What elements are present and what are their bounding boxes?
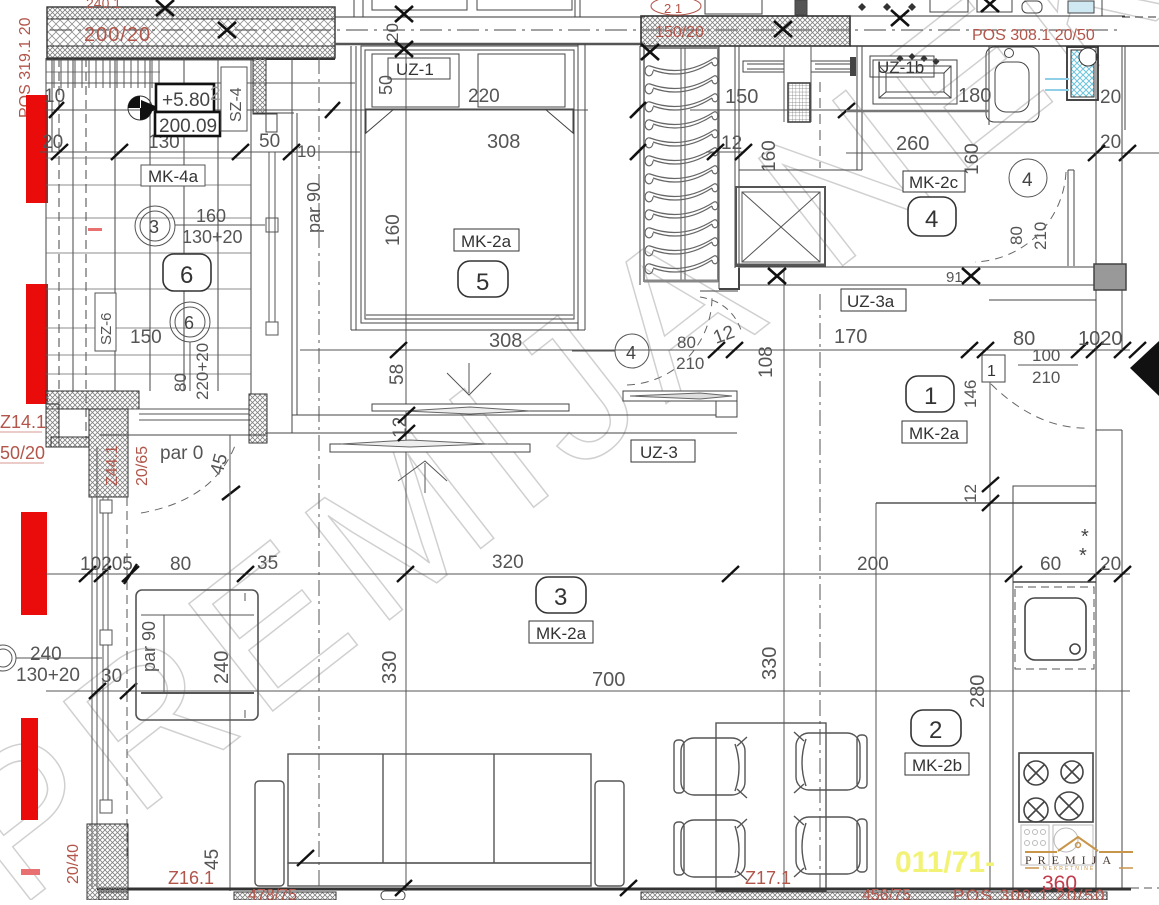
dashdot x322 — [318, 58, 320, 889]
svg-text:330: 330 — [379, 651, 401, 684]
svg-text:4: 4 — [925, 206, 938, 233]
svg-text:330: 330 — [759, 647, 781, 680]
svg-text:Z17.1: Z17.1 — [745, 868, 791, 888]
ticks y110/y152 — [49, 102, 340, 160]
toilet — [986, 47, 1039, 122]
svg-text:80: 80 — [677, 333, 696, 352]
level marker symbol — [128, 96, 160, 120]
dim line y110 right — [690, 109, 860, 111]
svg-text:260: 260 — [896, 133, 929, 155]
red bar 3 — [21, 512, 47, 615]
svg-text:160: 160 — [383, 214, 404, 246]
rounded 4 — [908, 197, 956, 236]
svg-text:45: 45 — [202, 849, 223, 870]
hall door arc (80) — [627, 297, 712, 385]
UZ-3 door panel upper right — [623, 391, 737, 417]
svg-text:150/20: 150/20 — [655, 24, 704, 41]
armchair — [136, 590, 258, 720]
svg-text:par 90: par 90 — [304, 182, 324, 233]
rounded 2 — [911, 710, 961, 746]
svg-text:220: 220 — [468, 86, 500, 107]
svg-text:210: 210 — [676, 354, 704, 373]
left circle dim — [0, 645, 102, 671]
svg-text:50: 50 — [376, 75, 396, 95]
tick y691 left — [120, 683, 137, 699]
svg-text:200.09: 200.09 — [159, 116, 217, 137]
svg-text:Z16.1: Z16.1 — [168, 868, 214, 888]
shelf left — [743, 61, 784, 72]
vertical x784 — [783, 268, 785, 889]
svg-text:1020: 1020 — [1078, 328, 1123, 350]
tick y110 right — [838, 103, 855, 118]
wall right of stairs — [719, 46, 739, 289]
UZ-3a wall lower line — [700, 290, 738, 292]
chair BR — [794, 816, 867, 877]
svg-text:1: 1 — [987, 363, 996, 380]
svg-text:20: 20 — [1100, 132, 1121, 153]
kitchen peninsula line — [876, 502, 1096, 504]
door jamb 1 — [982, 355, 1005, 382]
dining table — [716, 723, 826, 891]
dashed x127 — [126, 497, 128, 860]
bowtie marks on walls — [156, 0, 999, 284]
kitchen pass lines — [128, 409, 249, 420]
stove — [1019, 753, 1093, 822]
svg-text:220+20: 220+20 — [193, 343, 212, 400]
arrow lower — [398, 461, 447, 493]
counter outline — [1013, 486, 1096, 891]
svg-text:10: 10 — [297, 142, 316, 161]
level line y110 — [46, 109, 588, 111]
chair TL — [674, 737, 747, 798]
right wall column upper — [1096, 46, 1125, 296]
wall right of flue — [739, 46, 862, 170]
svg-text:5: 5 — [476, 269, 489, 296]
MK-2a label bedroom — [454, 229, 519, 251]
svg-text:50/20: 50/20 — [0, 443, 45, 463]
grid x990 — [989, 382, 991, 891]
MK-4a label — [141, 165, 205, 186]
svg-text:58: 58 — [387, 364, 408, 385]
svg-text:+5.80: +5.80 — [162, 90, 210, 111]
bottom right dashes — [1131, 887, 1159, 889]
circle 6 — [170, 302, 210, 342]
UZ-1b label — [870, 56, 934, 77]
niche line right — [989, 299, 1096, 301]
svg-text:UZ-1: UZ-1 — [396, 60, 434, 79]
dashed arc UZ-3a door — [700, 297, 741, 330]
svg-text:12: 12 — [961, 484, 980, 503]
svg-text:MK-2a: MK-2a — [909, 424, 960, 443]
bottom wall line — [97, 888, 1131, 891]
kitchen counter top tiles — [46, 60, 355, 88]
grid x876 — [875, 503, 877, 891]
svg-text:20: 20 — [383, 23, 402, 42]
MK-2a label living — [529, 621, 593, 643]
svg-text:80: 80 — [170, 554, 191, 575]
svg-text:180: 180 — [958, 85, 991, 107]
red dash left mid — [88, 228, 102, 231]
UZ-3a label — [841, 289, 906, 311]
diamonds top — [858, 3, 916, 11]
svg-text:200/20: 200/20 — [84, 24, 151, 46]
svg-text:240.1: 240.1 — [86, 0, 121, 11]
svg-text:20/65: 20/65 — [134, 446, 151, 486]
wall below stairs — [719, 268, 739, 289]
svg-text:108: 108 — [756, 346, 777, 378]
svg-text:308: 308 — [489, 330, 522, 352]
svg-text:MK-2a: MK-2a — [461, 232, 512, 251]
hatch pier below band — [253, 58, 266, 114]
sliding track left lower — [92, 447, 112, 889]
svg-text:160: 160 — [196, 206, 226, 226]
svg-text:20: 20 — [1100, 87, 1121, 108]
svg-text:Z14.1: Z14.1 — [0, 412, 46, 432]
dim line y153 right — [846, 152, 1159, 154]
black triangle right — [1130, 341, 1159, 396]
right wall column mid — [1096, 296, 1122, 889]
ticks on y350 — [390, 342, 1146, 358]
SZ-4 rotated label — [221, 67, 247, 131]
svg-text:PREMIJA: PREMIJA — [1025, 853, 1117, 867]
svg-text:UZ-3a: UZ-3a — [847, 292, 895, 311]
svg-text:160: 160 — [962, 143, 983, 175]
grid x230 — [229, 435, 231, 891]
counter divider y691 — [1013, 690, 1096, 692]
stair treads — [645, 58, 718, 274]
svg-text:146: 146 — [961, 380, 980, 408]
blue shaft — [1045, 47, 1098, 100]
door threshold bottom — [381, 891, 405, 900]
top wall band white right — [850, 16, 1159, 46]
svg-text:SZ-6: SZ-6 — [98, 312, 115, 345]
wall x292 corner — [291, 415, 293, 433]
ticks y152 mid — [707, 144, 752, 160]
top wall band hatch A — [46, 7, 335, 59]
svg-text:240: 240 — [211, 651, 233, 684]
svg-text:10: 10 — [44, 86, 65, 107]
svg-text:par 90: par 90 — [139, 621, 159, 672]
svg-text:130+20: 130+20 — [182, 227, 243, 247]
svg-text:50: 50 — [259, 131, 280, 152]
tick on arc — [222, 486, 240, 500]
svg-text:MK-2a: MK-2a — [536, 624, 587, 643]
svg-text:011/71-: 011/71- — [895, 846, 995, 879]
svg-text:MK-4a: MK-4a — [148, 167, 199, 186]
svg-text:Z44.1: Z44.1 — [104, 445, 121, 486]
dashdot x820 — [819, 294, 821, 889]
svg-text:POS 308.1 20/50: POS 308.1 20/50 — [972, 27, 1095, 44]
MK-2a label hall — [902, 421, 967, 443]
svg-text:6: 6 — [184, 313, 194, 333]
UZ-3 door panel lower — [330, 440, 530, 452]
bottom hatch left block — [87, 824, 128, 900]
svg-text:20: 20 — [1100, 554, 1121, 575]
ticks y153 — [1088, 145, 1136, 161]
shelf right — [811, 61, 854, 72]
elevator shaft — [736, 187, 825, 266]
dim line y152 mid — [706, 151, 745, 153]
flue grid — [784, 46, 811, 122]
red oval 21 above stairs — [651, 0, 701, 16]
premija logo — [1025, 837, 1133, 872]
hatch pier mid — [249, 394, 267, 443]
svg-text:456/75: 456/75 — [862, 887, 911, 900]
chair TR — [794, 732, 867, 793]
UZ-1 label — [388, 58, 450, 79]
svg-text:91: 91 — [946, 269, 963, 286]
svg-text:1: 1 — [924, 383, 937, 410]
door arc kitchen — [141, 443, 236, 513]
svg-text:130+20: 130+20 — [16, 665, 80, 686]
main dim line y574 — [46, 573, 1130, 575]
leader 160/130+20 — [175, 224, 265, 226]
chair BL — [674, 819, 747, 880]
rounded 3 — [536, 577, 586, 613]
corridor wall band y266-286 — [738, 264, 1126, 290]
svg-text:par 0: par 0 — [160, 443, 203, 464]
SZ-6 rotated label — [95, 293, 116, 351]
rounded 5 — [458, 261, 508, 297]
svg-text:308: 308 — [487, 131, 520, 153]
bed — [361, 46, 578, 323]
hall wall band — [100, 415, 737, 435]
rooms above band — [354, 0, 1102, 17]
svg-text:UZ-3: UZ-3 — [640, 443, 678, 462]
bottom hatch seg 1 — [234, 892, 336, 900]
ticks x406 y415/433 — [398, 407, 415, 441]
top wall band hatch B — [641, 16, 850, 46]
L-wall hatched — [46, 391, 139, 497]
svg-text:2: 2 — [929, 717, 942, 744]
circle 4 top — [1009, 159, 1047, 197]
rounded 1 — [906, 376, 954, 412]
top wall band white middle — [335, 17, 645, 44]
svg-text:35: 35 — [257, 553, 278, 574]
sink — [1025, 598, 1086, 660]
corridor between bed and stairs — [639, 46, 641, 285]
svg-text:60: 60 — [1040, 554, 1061, 575]
+5.80 box — [156, 84, 214, 112]
svg-text:3: 3 — [554, 584, 567, 611]
svg-text:2 1: 2 1 — [664, 1, 682, 16]
wall centerline dash-dot — [50, 29, 1120, 31]
tick above Z16 — [297, 850, 314, 866]
200.09 box — [155, 112, 220, 137]
grid line x406 — [405, 46, 407, 891]
svg-text:170: 170 — [834, 326, 867, 348]
svg-text:SZ-4: SZ-4 — [228, 87, 245, 122]
svg-text:280: 280 — [967, 675, 989, 708]
sofa — [255, 754, 624, 886]
tick x97 y691 — [89, 683, 106, 699]
grid y690 — [46, 690, 1130, 692]
svg-text:POS 300.1 20/50: POS 300.1 20/50 — [953, 886, 1106, 900]
arrow upper — [447, 363, 491, 395]
bathtub UZ-1b — [873, 60, 957, 104]
dim line y152 — [40, 151, 360, 153]
svg-text:MK-2b: MK-2b — [912, 756, 962, 775]
sink dashed counter — [1015, 587, 1094, 669]
rounded 6 — [163, 254, 211, 291]
leader from circle4 — [572, 350, 615, 352]
dishwasher sketch — [1021, 825, 1093, 865]
svg-text:320: 320 — [492, 552, 524, 573]
svg-text:80: 80 — [171, 373, 190, 392]
svg-text:150: 150 — [130, 327, 162, 348]
svg-text:10205: 10205 — [80, 554, 133, 575]
svg-text:700: 700 — [592, 669, 625, 691]
svg-text:3: 3 — [149, 217, 159, 237]
staircase — [644, 48, 718, 281]
tick bottom door — [395, 880, 412, 896]
counter divider y576 — [1013, 581, 1096, 583]
red bar 1 — [26, 95, 48, 203]
door arc mid right — [991, 384, 1090, 428]
wall at x989 bath — [988, 46, 990, 125]
stair bottom edge — [644, 280, 718, 283]
MK-2b label — [905, 753, 969, 775]
svg-text:*: * — [1079, 545, 1087, 567]
svg-text:MK-2c: MK-2c — [909, 173, 959, 192]
svg-text:240: 240 — [30, 644, 62, 665]
red bar 4 — [21, 718, 38, 820]
kitchen grid horizontals — [46, 158, 251, 374]
svg-text:20: 20 — [42, 132, 63, 153]
UZ-3 label — [631, 440, 695, 462]
dashed flue centerline — [819, 82, 821, 168]
door leaf top right — [1068, 170, 1074, 266]
circle 3 — [135, 206, 175, 246]
red tick bottom left — [21, 869, 40, 875]
svg-text:NEKRETNINE: NEKRETNINE — [1043, 866, 1095, 872]
door arc top right — [975, 172, 1066, 262]
main horizontal line y350 — [300, 349, 1130, 351]
red bar 2 — [26, 284, 48, 404]
svg-text:80: 80 — [1007, 226, 1026, 245]
50/20 red underlined — [0, 443, 45, 463]
svg-text:150: 150 — [725, 86, 758, 108]
svg-text:4: 4 — [1022, 170, 1033, 191]
svg-text:478/75: 478/75 — [248, 887, 297, 900]
svg-text:6: 6 — [180, 262, 193, 289]
tick bottom x628 — [620, 880, 637, 896]
circle 4 mid — [615, 334, 649, 368]
svg-text:210: 210 — [1032, 368, 1060, 387]
sliding track kitchen — [266, 152, 278, 335]
svg-text:12: 12 — [721, 133, 742, 154]
svg-text:100: 100 — [1032, 346, 1060, 365]
small diamonds above tub — [897, 53, 940, 65]
bedroom walls — [351, 44, 585, 330]
bath lower wall — [846, 110, 989, 113]
ticks y574 — [79, 564, 1131, 584]
MK-2c label — [903, 171, 965, 192]
svg-text:210: 210 — [1031, 222, 1050, 250]
bottom hatch seg tiny left — [99, 892, 128, 900]
bottom hatch seg 2 — [641, 892, 1107, 900]
left outer wall line — [46, 58, 297, 447]
svg-text:20/40: 20/40 — [65, 844, 82, 884]
UZ-3 door panel mid — [372, 404, 569, 414]
svg-text:4: 4 — [626, 343, 636, 363]
svg-text:200: 200 — [857, 554, 889, 575]
ticks x990 — [982, 477, 999, 511]
jamb below pier — [266, 114, 277, 132]
black jamb left of tub — [850, 57, 856, 76]
svg-text:160: 160 — [759, 140, 780, 172]
